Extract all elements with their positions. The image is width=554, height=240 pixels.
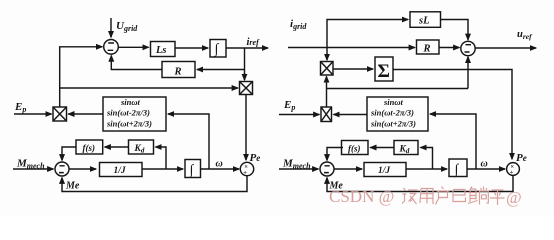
block f(s) (left) bbox=[76, 140, 103, 154]
node Mmech label (right) bbox=[282, 158, 311, 171]
svg-text:igrid: igrid bbox=[290, 18, 307, 31]
block Kd (right) bbox=[394, 141, 418, 155]
watermark chinese glyphs bbox=[402, 187, 505, 206]
block integrator 1 bbox=[210, 40, 226, 58]
svg-text:sinωt: sinωt bbox=[383, 97, 404, 107]
svg-text:sin(ωt-2π/3): sin(ωt-2π/3) bbox=[370, 108, 414, 118]
wire omega2 into Pe junction P2 bbox=[467, 168, 505, 170]
wire Pe feedback Me to S2 bottom bbox=[62, 176, 247, 192]
wire Ep into M4 bbox=[279, 114, 319, 116]
wire M2 output down to Pe junction P1 bbox=[245, 95, 247, 161]
block 1/J (left) bbox=[100, 163, 143, 177]
block sL bbox=[410, 12, 441, 27]
node Pe label (left) bbox=[250, 152, 261, 164]
block R (left diagram) bbox=[162, 62, 195, 78]
node Ugrid label bbox=[116, 20, 138, 33]
svg-text:+: + bbox=[243, 169, 247, 176]
watermark trailing at-sign bbox=[506, 188, 522, 207]
block sin generator (left) bbox=[103, 97, 166, 131]
svg-text:Kd: Kd bbox=[134, 144, 145, 155]
wire tap from 1/J2 output up into Kd2 right side bbox=[421, 148, 433, 170]
wire into R block bbox=[197, 69, 245, 71]
summing junction S2 bbox=[55, 162, 69, 176]
wire M3 down to multiplier M4 bbox=[326, 77, 328, 108]
wire branch from M1 output to M2 left side bbox=[60, 87, 238, 89]
glyph hu bbox=[436, 187, 450, 205]
multiplier M1 (x-box left) bbox=[53, 107, 67, 121]
svg-text:Ugrid: Ugrid bbox=[116, 20, 138, 33]
wire Mmech2 into S4 bbox=[279, 168, 318, 170]
wire R to S1 bottom bbox=[111, 56, 162, 70]
node Pe label (right) bbox=[516, 152, 527, 164]
svg-text:iref: iref bbox=[247, 37, 261, 48]
svg-text:ω: ω bbox=[216, 159, 223, 170]
block R (right diagram) bbox=[417, 40, 440, 54]
wire S3 output uref bbox=[475, 47, 536, 49]
svg-text:R: R bbox=[174, 67, 182, 78]
wire 1/J2 to integrator 3 bbox=[406, 168, 447, 170]
svg-text:+: + bbox=[510, 169, 514, 176]
wire Pe2 feedback Me2 to S4 bottom bbox=[327, 175, 513, 191]
wire Sigma output right and down to Pe junction P2 bbox=[393, 70, 512, 160]
svg-text:sin(ωt+2π/3): sin(ωt+2π/3) bbox=[106, 119, 152, 129]
glyph yi bbox=[453, 190, 466, 202]
wire sin2 output into M4 right side bbox=[334, 114, 368, 116]
svg-text:Pe: Pe bbox=[516, 152, 527, 164]
glyph tang bbox=[468, 187, 488, 205]
wire M3 output into Sigma bbox=[333, 68, 373, 70]
wire sL output down into S3 top bbox=[441, 20, 469, 40]
wire M1 output up and right into S1 left bbox=[60, 47, 102, 107]
wire arrow into M2 top bbox=[244, 73, 246, 80]
svg-text:Ep: Ep bbox=[14, 101, 26, 114]
wire branch up into S3 bottom bbox=[467, 57, 469, 89]
wire omega tap up into sin block right side bbox=[168, 114, 209, 169]
multiplier M3 (x-box upper right diagram) bbox=[321, 62, 334, 76]
block sin generator (right) bbox=[367, 97, 428, 131]
wire integrator to iref output bbox=[226, 47, 268, 49]
multiplier junction P1 (Pe) bbox=[240, 162, 253, 175]
glyph gai bbox=[402, 188, 418, 204]
wire feedback junction down from iref line to R and multiplier M2 bbox=[244, 48, 246, 80]
node iref label bbox=[247, 37, 261, 48]
svg-text:sL: sL bbox=[418, 16, 430, 27]
svg-text:R: R bbox=[423, 44, 431, 55]
svg-text:Ep: Ep bbox=[283, 99, 295, 112]
wire Kd to f(s) bbox=[105, 146, 129, 148]
summing junction S4 bbox=[320, 162, 334, 176]
wire Mmech into S2 bbox=[13, 168, 53, 170]
svg-text:sinωt: sinωt bbox=[120, 97, 141, 107]
block Kd (left) bbox=[129, 140, 154, 154]
svg-text:ω: ω bbox=[481, 159, 488, 170]
wire Ep into multiplier M1 bbox=[14, 113, 52, 115]
wire junction up to sL bbox=[327, 20, 408, 48]
block integrator 3 bbox=[449, 159, 467, 177]
wire omega line into Pe junction P1 bbox=[201, 168, 240, 170]
node uref label bbox=[517, 29, 533, 41]
wire 1/J to integrator 2 bbox=[142, 168, 183, 170]
block f(s) (right) bbox=[342, 141, 369, 155]
svg-text:@: @ bbox=[506, 188, 522, 207]
wire tap from 1/J output up into Kd right side bbox=[156, 147, 167, 169]
svg-text:f(s): f(s) bbox=[348, 144, 361, 154]
node Mmech label (left) bbox=[16, 158, 45, 171]
summing junction S1 bbox=[104, 40, 119, 55]
svg-text:1/J: 1/J bbox=[114, 166, 126, 176]
node igrid label bbox=[290, 18, 307, 31]
wire Ls to integrator bbox=[175, 47, 208, 49]
node Me label (left) bbox=[65, 180, 80, 191]
svg-text:Ls: Ls bbox=[155, 45, 167, 56]
wire S2 to 1/J bbox=[69, 168, 96, 170]
node omega label (right) bbox=[481, 159, 488, 170]
node Ep label (right) bbox=[283, 99, 295, 112]
wire omega tap up into sin2 right side bbox=[430, 114, 476, 169]
wire Kd2 to f(s)2 bbox=[370, 147, 394, 149]
summing junction S3 bbox=[461, 41, 475, 55]
wire igrid main line into R2 bbox=[288, 47, 415, 49]
wire f(s)2 output down into S4 top bbox=[327, 148, 343, 161]
wire sin block output into M1 right side bbox=[68, 113, 103, 115]
wire f(s) output down into S2 top bbox=[62, 147, 76, 160]
wire Ugrid input arrow into summing junction S1 bbox=[110, 18, 112, 37]
svg-text:Kd: Kd bbox=[399, 145, 410, 156]
node Me label (right) bbox=[329, 180, 344, 191]
wire R2 into S3 bbox=[439, 47, 459, 49]
svg-text:∫: ∫ bbox=[189, 163, 195, 178]
watermark CSDN bbox=[329, 187, 394, 206]
wire S1 to Ls bbox=[118, 46, 148, 48]
svg-text:CSDN @: CSDN @ bbox=[329, 187, 394, 206]
wire lower branch from M3 vertical to S3 riser bbox=[327, 88, 469, 90]
glyph ping bbox=[490, 190, 505, 205]
block Ls bbox=[151, 42, 176, 57]
svg-text:1/J: 1/J bbox=[378, 166, 390, 176]
wire junction down into multiplier M3 top bbox=[326, 48, 328, 61]
node Ep label (left) bbox=[14, 101, 26, 114]
svg-text:sin(ωt+2π/3): sin(ωt+2π/3) bbox=[370, 119, 416, 129]
svg-text:f(s): f(s) bbox=[83, 143, 96, 153]
glyph yong bbox=[420, 189, 433, 205]
svg-text:∫: ∫ bbox=[214, 42, 220, 57]
svg-text:uref: uref bbox=[517, 29, 533, 41]
svg-text:Me: Me bbox=[65, 180, 80, 191]
node omega label (left) bbox=[216, 159, 223, 170]
block 1/J (right) bbox=[364, 163, 406, 177]
block Sigma bbox=[375, 57, 393, 81]
svg-text:Σ: Σ bbox=[378, 61, 390, 82]
svg-text:∫: ∫ bbox=[454, 163, 460, 178]
multiplier M2 (x-box right) bbox=[240, 82, 253, 95]
svg-text:sin(ωt-2π/3): sin(ωt-2π/3) bbox=[106, 108, 150, 118]
wire S4 to 1/J2 bbox=[334, 168, 362, 170]
multiplier M4 (x-box lower right diagram) bbox=[321, 107, 332, 122]
block integrator 2 bbox=[185, 160, 201, 178]
multiplier junction P2 (Pe) bbox=[507, 163, 520, 176]
svg-text:Pe: Pe bbox=[250, 152, 261, 164]
